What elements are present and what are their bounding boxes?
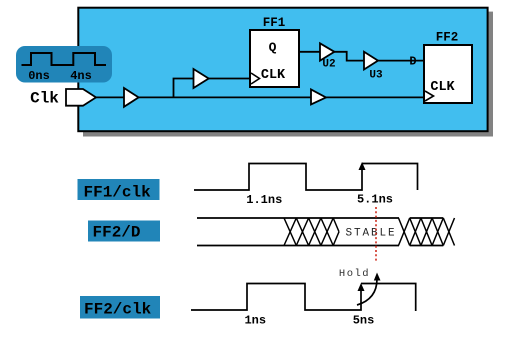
wire Clk to buffer B1 bbox=[94, 96, 124, 98]
FF1/clk label box bbox=[78, 179, 160, 200]
svg-text:CLK: CLK bbox=[430, 80, 455, 95]
svg-text:FF2/D: FF2/D bbox=[93, 224, 141, 242]
FF2/clk rising edge arrowhead bbox=[358, 283, 365, 291]
buffer B3 (FF2 clock line buffer) bbox=[311, 89, 326, 104]
clock waveform icon bbox=[22, 53, 107, 65]
buffer B1 (after Clk input) bbox=[124, 88, 139, 107]
svg-text:U2: U2 bbox=[322, 59, 335, 71]
hold arrow head bbox=[374, 273, 381, 281]
svg-text:5ns: 5ns bbox=[353, 314, 375, 328]
FF2/clk waveform high segment and end bbox=[361, 284, 416, 312]
flip-flop FF2 bbox=[424, 45, 472, 103]
svg-text:U3: U3 bbox=[369, 70, 383, 82]
wire FF1 Q to U2 bbox=[298, 51, 321, 53]
main blue block bbox=[78, 8, 487, 132]
svg-text:D: D bbox=[409, 55, 416, 69]
FF2/D label box bbox=[88, 221, 160, 242]
svg-text:4ns: 4ns bbox=[70, 69, 92, 83]
svg-text:Q: Q bbox=[269, 40, 277, 55]
clock source rounded box bbox=[16, 46, 112, 83]
input port pentagon bbox=[66, 89, 96, 106]
svg-text:5.1ns: 5.1ns bbox=[357, 193, 393, 207]
FF1/clk rising edge arrowhead bbox=[359, 162, 366, 170]
wire buffer B2 to FF1 CLK bbox=[208, 78, 251, 80]
svg-text:FF2/clk: FF2/clk bbox=[84, 301, 152, 319]
FF2/D bus top line bbox=[197, 217, 443, 219]
svg-text:0ns: 0ns bbox=[28, 69, 50, 83]
FF2/D hatch region 2 bbox=[399, 218, 455, 246]
FF2 clock input triangle bbox=[425, 91, 434, 101]
FF2/D hatch region 1 bbox=[284, 218, 339, 246]
FF2/D bus bottom line bbox=[197, 245, 443, 247]
svg-text:CLK: CLK bbox=[261, 68, 286, 83]
wire U2 to U3 (jog down) bbox=[334, 52, 365, 61]
svg-text:Clk: Clk bbox=[30, 90, 59, 108]
svg-text:Hold: Hold bbox=[339, 268, 370, 280]
svg-text:STABLE: STABLE bbox=[345, 228, 396, 240]
svg-text:1ns: 1ns bbox=[244, 314, 266, 328]
wire main clock line to FF2 CLK bbox=[137, 96, 424, 98]
svg-text:FF1/clk: FF1/clk bbox=[84, 184, 152, 202]
svg-text:1.1ns: 1.1ns bbox=[246, 193, 282, 207]
FF2/clk waveform bbox=[191, 284, 361, 311]
FF1/clk waveform bbox=[194, 164, 362, 191]
svg-text:FF1: FF1 bbox=[263, 16, 286, 30]
FF1 clock input triangle bbox=[251, 73, 260, 84]
FF2/clk label box bbox=[80, 296, 160, 319]
wire branch up to FF1 clock buffer bbox=[174, 79, 196, 98]
hold curved arrow bbox=[357, 279, 377, 305]
flip-flop FF1 bbox=[250, 30, 299, 87]
buffer B2 (FF1 clock buffer) bbox=[194, 69, 209, 88]
shadow of main block bbox=[83, 12, 493, 137]
buffer U2 bbox=[320, 43, 334, 60]
wire U3 to FF2 D bbox=[377, 60, 425, 62]
svg-text:FF2: FF2 bbox=[436, 31, 459, 45]
buffer U3 bbox=[364, 52, 378, 70]
FF1/clk waveform high segment and end bbox=[362, 164, 418, 191]
red dotted timing line bbox=[375, 207, 377, 262]
